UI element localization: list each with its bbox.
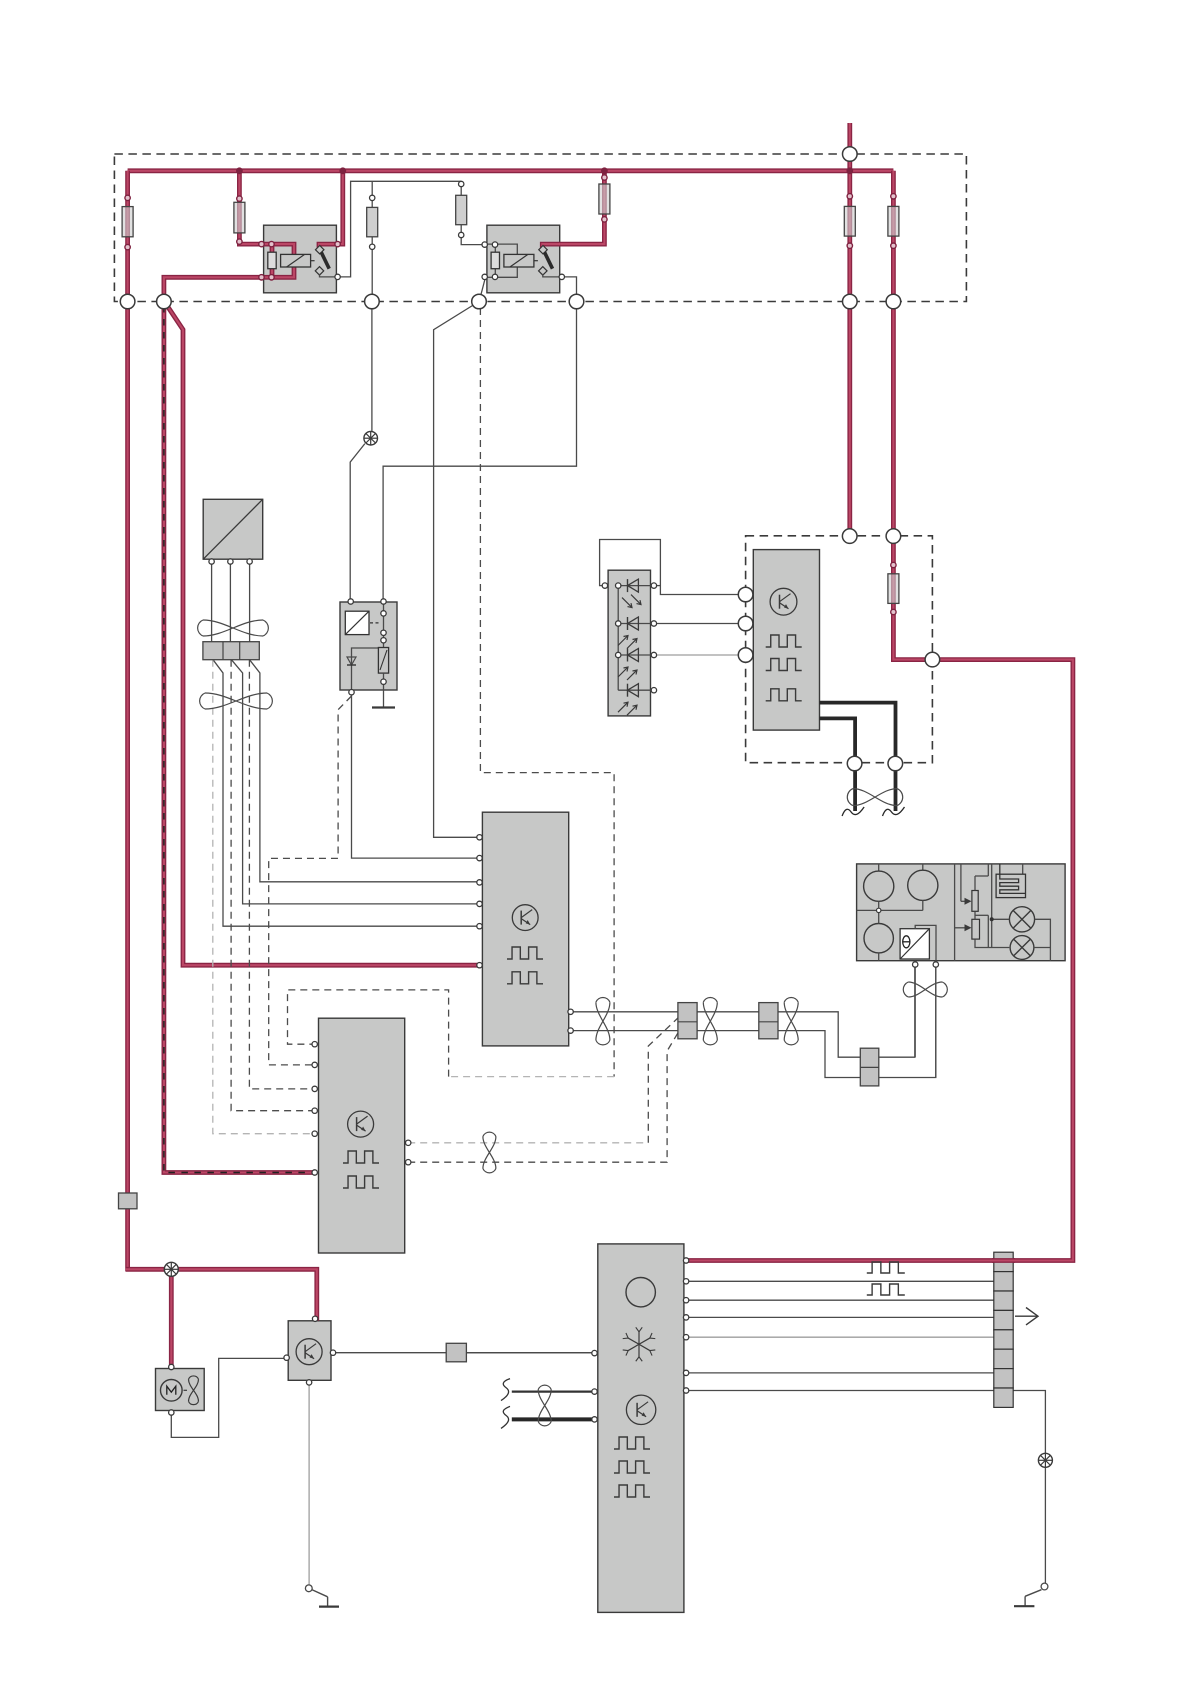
connector block C3 — [860, 1048, 879, 1086]
harness solid wire to U2 pin 5 — [213, 660, 480, 927]
motor M1 symbol — [161, 1376, 199, 1405]
wire connector to warning lamp to regulator A2 pin 1 — [350, 302, 372, 601]
U2 signal pair to cluster upper — [571, 965, 915, 1058]
LED module wire row2 to U1 pin 2 — [654, 623, 746, 625]
harness solid wire to U2 pin 3 — [250, 660, 480, 882]
U2 pulse glyph 1 — [507, 947, 543, 959]
door switch right with ground — [1014, 1590, 1041, 1607]
motor M1 return wire to U5 — [171, 1358, 287, 1437]
U4 wire row 7 to lamp and switch — [686, 1391, 1045, 1584]
U1 pulse glyph 2 — [766, 659, 802, 671]
instrument cluster internals — [857, 864, 1051, 961]
relay K1 body — [264, 225, 337, 293]
sensor A1 body (box with diagonal) — [203, 499, 263, 559]
twist on cluster sensor pair — [903, 982, 947, 997]
relay K1 red pin circles — [259, 241, 341, 280]
twist on U1 black pair — [847, 789, 902, 806]
twist on U2-cluster pair 1 — [596, 997, 610, 1044]
light dashed segment of K2 return — [449, 1076, 614, 1078]
cluster theta sensor wires down — [915, 961, 936, 1078]
U1 transistor symbol — [770, 588, 797, 615]
U2 pulse glyph 2 — [507, 972, 543, 984]
harness dashed wire to U3 pin 5 — [213, 660, 315, 1134]
U4 left input thin wire — [465, 1352, 595, 1354]
top dashed junction box frame — [114, 154, 966, 302]
fuse F3 — [367, 207, 378, 236]
connector block C2 — [759, 1003, 778, 1039]
U4 twisted input medium wire — [512, 1390, 595, 1392]
fuse F5 — [599, 184, 610, 214]
dashed wire K2 return to U3 pin 1 long route — [480, 308, 614, 1077]
red fuse terminal rings — [125, 175, 896, 615]
break squiggles on U4 input pair — [501, 1379, 510, 1429]
wire relay K1 output up and across — [337, 181, 461, 277]
fuse F4 — [456, 195, 467, 224]
blower motor M1 body — [156, 1369, 205, 1411]
black stripe of red/black wire — [164, 306, 316, 1173]
wire relay K2 coil return diagonal to connector — [479, 278, 485, 302]
red branch down to motor M1 — [169, 1269, 174, 1368]
U3 dashed signal wire lower to connector — [408, 1033, 678, 1162]
wire connector to regulator A2 pin 2 — [383, 302, 576, 601]
relay K2 body — [487, 225, 560, 293]
twist on U2-cluster pair 2 — [703, 997, 717, 1044]
splice block of sensor harness — [203, 642, 259, 660]
control module U1 body — [753, 550, 819, 731]
wire F4 down to relay K2 coil — [461, 181, 488, 244]
U3 pulse glyph 2 — [343, 1176, 379, 1188]
red wire relay K1 coil return to connector — [164, 277, 264, 303]
red wire F1 branch to lamp junction and relay/unit U5 — [126, 1269, 317, 1321]
small control unit U5 body — [288, 1321, 331, 1381]
twist on U2-cluster pair 3 — [784, 997, 798, 1044]
harness solid wire to U2 pin 4 — [231, 660, 479, 904]
U4 wire row 2 — [686, 1280, 1013, 1282]
inline connector on left red wire — [119, 1193, 138, 1209]
wire regulator A2 to center unit U2 pin 2 — [352, 695, 480, 858]
U4 twisted input thick wire — [512, 1417, 595, 1421]
warning lamp above regulator — [364, 431, 378, 445]
U4 pulse glyph 2 — [614, 1461, 650, 1473]
fuse F6 — [844, 206, 855, 236]
dashed wire continuation to U3 pin 1 — [288, 990, 449, 1077]
regulator ground wire — [372, 690, 395, 708]
connector block C1 — [678, 1003, 697, 1039]
lamp at motor junction — [164, 1262, 178, 1276]
U4 pulse glyph 1 — [614, 1437, 650, 1449]
direction arrow at connector strip — [1015, 1308, 1038, 1325]
twist on U3 dashed pair — [483, 1132, 496, 1173]
fuse F2 — [234, 202, 245, 233]
relay K1 internals — [263, 244, 337, 277]
U5 transistor symbol — [296, 1339, 322, 1365]
U4 wire row 6 — [686, 1372, 1013, 1374]
fuse F8 inside U1 — [888, 574, 899, 604]
lamp on door switch wire — [1038, 1453, 1052, 1467]
red supply bus 30 — [128, 168, 894, 173]
bottom control unit U4 body — [598, 1244, 684, 1613]
LED/photo sensor module body — [608, 570, 650, 716]
pulse glyph above U4 row2 — [867, 1262, 905, 1273]
inline connector on U5 wire — [446, 1343, 466, 1362]
red wire bus to fuse F1 down left side — [125, 171, 130, 1272]
connector strip X1 cells — [994, 1252, 1013, 1407]
red wire bus-F7 down to U1 fuse — [686, 171, 1073, 1261]
harness dashed wire to U3 pin 3 — [249, 660, 314, 1089]
U4 round icon — [626, 1278, 655, 1307]
relay K2 internals — [486, 244, 560, 277]
wire branch through fuse F3 down — [371, 181, 373, 301]
sensor A1 harness wires to splice — [212, 563, 250, 642]
twist symbol harness upper — [198, 620, 269, 636]
left control unit U3 body — [319, 1018, 405, 1253]
U3 dashed signal wire upper to connector (light) — [408, 1018, 678, 1143]
U4 wire row 3 — [686, 1299, 1013, 1301]
in-line connector circles — [120, 147, 939, 771]
twist on U4 input pair — [538, 1385, 551, 1426]
red wire branch to center unit U2 — [165, 303, 481, 965]
dashed wire regulator A2 to U3 pin 2 — [269, 696, 352, 1065]
wire connector diagonal to center unit U2 pin 1 — [434, 302, 480, 838]
red bus junction dots — [236, 167, 853, 174]
U1 pulse glyph 3 — [766, 689, 802, 701]
LED module loop wire to U1 pin 1 — [600, 540, 746, 595]
U4 transistor symbol — [626, 1395, 655, 1424]
regulator A2 body — [340, 602, 397, 690]
U4 wire row 5 light — [686, 1336, 1013, 1338]
LED module wire row3 to U1 pin 3 — [654, 654, 746, 656]
U3 transistor symbol — [348, 1111, 374, 1137]
red wire bus-F2-relay K1 coil feed — [239, 171, 264, 244]
U2 signal pair to cluster lower — [571, 965, 936, 1078]
red wire bus to relay K1 switch — [335, 171, 343, 244]
wire U5 to bottom unit U4 — [334, 1352, 595, 1354]
U1 pulse glyph 1 — [766, 635, 802, 647]
red wire through strip cell 1 — [992, 1258, 1015, 1263]
red wire bus-F5 to relay K2 switch — [559, 171, 604, 244]
U3 pulse glyph 1 — [343, 1151, 379, 1163]
pulse glyph above U4 row3 — [867, 1284, 905, 1295]
component pin circles — [169, 181, 939, 1422]
break squiggles on U1 black pair — [842, 807, 904, 816]
wire relay K2 output to connector — [560, 277, 577, 302]
red feed wire from top of page — [847, 123, 852, 536]
LED module internals — [618, 579, 651, 715]
control module U1 dashed enclosure — [746, 536, 933, 763]
U4 wire row 4 — [686, 1316, 1013, 1318]
U4 pulse glyph 3 — [614, 1485, 650, 1497]
door switch contact circles — [305, 1583, 1048, 1592]
wire U5 to door switch — [308, 1382, 310, 1585]
door switch left with ground — [312, 1590, 340, 1607]
center control unit U2 body — [482, 812, 568, 1046]
U1 screened black wire pair — [820, 703, 896, 811]
instrument cluster body — [857, 864, 1066, 961]
harness dashed wire to U3 pin 4 — [231, 660, 315, 1111]
U2 transistor symbol — [512, 905, 538, 931]
twist symbol harness lower — [200, 693, 273, 709]
fuse F7 — [888, 206, 899, 236]
U4 snowflake icon — [623, 1327, 656, 1361]
fuse F1 — [122, 207, 133, 237]
regulator A2 internals — [345, 601, 388, 692]
red/black wire to left unit U3 — [164, 302, 316, 1173]
